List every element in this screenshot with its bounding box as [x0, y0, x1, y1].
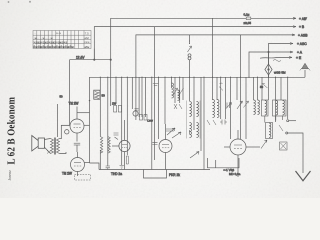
chassis U bracket [144, 170, 167, 179]
trimmer T3 [237, 101, 243, 109]
coil L2b [197, 102, 199, 117]
capacitor C5 [220, 120, 227, 125]
switch s1 [174, 104, 177, 109]
coil L2a [190, 102, 192, 117]
svg-text:50: 50 [260, 85, 264, 89]
wire line6 heater [260, 56, 292, 59]
wire branch x116 [115, 77, 117, 104]
wire speaker feed [57, 104, 59, 137]
wire table drop [93, 49, 95, 60]
wire branch x204 [203, 77, 205, 169]
svg-text:lorenz: lorenz [7, 170, 12, 181]
resistor R1 [100, 137, 103, 154]
trimmer T1 [166, 128, 175, 135]
heater wavy marks [219, 83, 223, 91]
svg-text:+ E: + E [296, 56, 302, 60]
coil L4a [213, 100, 215, 118]
wire branch x253.5 [253, 77, 255, 100]
coil L1 [172, 83, 174, 98]
svg-text:12 ΔV: 12 ΔV [76, 56, 85, 60]
wire branch x100.3 [99, 77, 101, 91]
capacitor Ck [74, 143, 80, 152]
bottom rail [99, 169, 210, 171]
tube V5 [224, 130, 260, 177]
coil L8a [254, 100, 256, 115]
wire coil stubs [265, 116, 283, 123]
wire branch x139.1 [138, 77, 140, 117]
speck marks top edge [8, 1, 10, 3]
wire branch x110.7 [110, 77, 112, 106]
wire branch x257.5 [257, 77, 259, 100]
svg-text:··: ·· [34, 32, 36, 36]
transformer Tr1 [44, 138, 66, 155]
small caps boxes [140, 115, 154, 123]
svg-text:Tkl 2W: Tkl 2W [62, 172, 72, 176]
trimmer T2 [226, 103, 232, 110]
wire branch x154.5 [154, 77, 156, 160]
junction marks [47, 151, 51, 154]
wire bus line3 [136, 35, 295, 120]
wire branch x132.3 [131, 77, 133, 109]
wire branch x107.8 [107, 77, 109, 166]
svg-text:±0,05: ±0,05 [244, 21, 252, 25]
wire 12V link [70, 59, 111, 61]
node J2 [110, 59, 111, 60]
wire branch x281 [280, 77, 282, 100]
wire branch x158.5 [158, 77, 160, 139]
node J3 [268, 51, 269, 52]
rectifier W diamond [265, 52, 286, 77]
terminal arrow +ABF [293, 17, 296, 19]
svg-text:1W: 1W [112, 102, 117, 106]
coil L6a framed [262, 100, 269, 116]
wire branch x240.5 [240, 35, 242, 139]
wire branch x165 [164, 77, 166, 124]
small boxes row [112, 102, 122, 113]
svg-text:THD 2a: THD 2a [111, 172, 122, 176]
switch s2 [207, 120, 216, 125]
node J1 [94, 59, 95, 60]
wire branch x154.5 [154, 27, 156, 78]
wire branch x212.5 [212, 77, 214, 100]
svg-text:50: 50 [60, 95, 64, 99]
wire branch x275.5 [275, 77, 277, 122]
earth arrow [296, 171, 311, 181]
wire line5 [249, 52, 293, 77]
svg-text:+ AB′: + AB′ [299, 17, 307, 21]
svg-text:+ ASB: + ASB [298, 33, 308, 37]
left rail links [90, 163, 100, 170]
wire branch x268.5 [268, 77, 270, 100]
wire branch x194 [193, 77, 195, 130]
wire branch x127.3 [126, 77, 128, 155]
svg-text:7,5: 7,5 [85, 31, 89, 35]
tube V2 [71, 152, 90, 176]
svg-text:0,1μ: 0,1μ [244, 13, 250, 17]
terminal arrow +B [293, 26, 296, 28]
wire branch x225.6 [225, 77, 227, 119]
svg-text:50: 50 [102, 94, 106, 98]
wire branch x237 [236, 77, 238, 100]
bracket below V5 [208, 158, 240, 168]
trimmer T6 [261, 140, 267, 149]
wire branch x179.7 [179, 77, 181, 103]
svg-text:MD 0,3a: MD 0,3a [229, 172, 241, 176]
coil L5 top [189, 130, 191, 134]
svg-text:+ B: + B [299, 25, 305, 29]
marks near x136 [135, 109, 139, 111]
svg-text:ж8ж: ж8ж [84, 45, 89, 49]
ground g1 [120, 166, 124, 169]
svg-text:mne: mne [84, 41, 90, 44]
svg-text:+ A: + A [297, 51, 303, 55]
wire branch x287.7 [287, 77, 289, 119]
tube V1 [61, 107, 89, 142]
capacitor C1 0.1u on bus1 [244, 13, 252, 25]
small circle comp [133, 111, 138, 116]
node rail joint [89, 100, 90, 101]
earth stub [289, 120, 296, 122]
wire branch x189.5 [189, 77, 191, 101]
wire branch x230.5 [230, 77, 232, 139]
dashed box [75, 175, 91, 181]
tube V4 [159, 124, 172, 170]
trimmer T5 [172, 132, 181, 138]
wire left drop to transformer [61, 60, 69, 139]
capacitor C6 [227, 103, 230, 109]
svg-text:+ ASC: + ASC [297, 42, 307, 46]
node bus joints [100, 77, 289, 78]
tube V3 [112, 120, 130, 170]
wire branch x175 [174, 77, 176, 103]
coil L4b [217, 100, 219, 118]
coil L3b [197, 123, 199, 138]
speaker LS [32, 136, 45, 152]
svg-text:PKR 2k: PKR 2k [169, 173, 180, 177]
svg-text:Tkl 2W: Tkl 2W [69, 102, 79, 106]
trimmer T4 [190, 152, 199, 159]
fuse and dial lamp on x189.5 [188, 35, 192, 77]
coil L7 framed [266, 123, 273, 139]
svg-text:×ажа×ажа×ажа×ажа×а: ×ажа×ажа×ажа×ажа×а [33, 40, 67, 44]
svg-text:wGB 5M: wGB 5M [274, 71, 286, 75]
coil L8b [258, 100, 260, 115]
switch s5 arrow [244, 101, 249, 108]
svg-text:ab2: ab2 [85, 36, 90, 40]
wire branch x142 [141, 77, 143, 117]
electrolytic C50 [94, 90, 105, 99]
switch arrows s4 [173, 88, 184, 96]
pickup box [280, 142, 288, 150]
wire branch x171.5 [171, 77, 173, 88]
wire branch x151.8 [151, 77, 153, 169]
comp hum [260, 83, 268, 89]
cap to rail [106, 166, 110, 170]
terminal arrow +ASB [292, 34, 295, 36]
IF can frame [186, 101, 200, 139]
svg-text:8ж8ж8ж8ж8ж8ж8ж8ж8ж: 8ж8ж8ж8ж8ж8ж8ж8ж8ж [33, 45, 74, 49]
wire bus line2 [94, 27, 296, 60]
capacitor C7 [152, 142, 157, 144]
wire main rail [90, 77, 306, 163]
wire branch x262 [261, 77, 263, 100]
wire branch x201 [200, 77, 202, 151]
wire branch x217 [216, 77, 218, 100]
wire branch x183 [182, 77, 184, 100]
wire branch x145.5 [145, 77, 147, 117]
switch table [33, 31, 91, 49]
node terminal small circle [65, 130, 69, 134]
wire x212 drop [212, 18, 214, 77]
earth wire [288, 133, 303, 173]
grid cap marks V3 [114, 133, 119, 140]
antenna A [300, 63, 310, 77]
wire branch x121.7 [121, 77, 123, 165]
svg-text:L 62 B Oekonom: L 62 B Oekonom [6, 96, 18, 164]
coil L6b framed [273, 100, 287, 116]
coil L3a [190, 123, 192, 138]
wire drop x110 below [110, 60, 112, 78]
wire line4 [269, 44, 294, 78]
wire bus +B line1 [111, 18, 296, 59]
wire branch x220.7 [220, 77, 222, 119]
svg-text:×·×: ×·× [56, 32, 61, 36]
terminal arrow heater [289, 56, 292, 58]
terminal arrow +A [290, 51, 293, 53]
resistor R2 [108, 137, 111, 154]
resistor R3 [126, 156, 128, 164]
terminal arrow +ASC [290, 43, 293, 45]
wire branch x246 [245, 77, 247, 139]
coil L1b [178, 90, 180, 100]
tick marks x154 [153, 84, 159, 86]
switch s3 [279, 125, 283, 131]
